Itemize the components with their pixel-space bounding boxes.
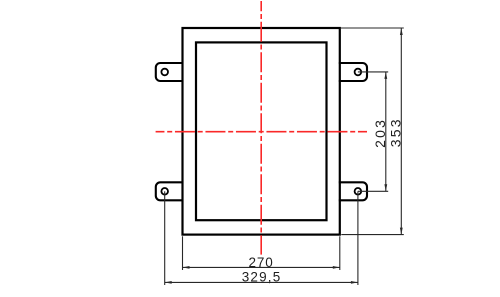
extension line 203 top <box>358 71 388 73</box>
arrow 270 left <box>183 266 190 269</box>
dimension line 329.5 <box>165 281 358 283</box>
svg-text:353: 353 <box>388 117 404 147</box>
dimension line 270 <box>183 266 340 268</box>
horizontal centerline <box>156 131 367 133</box>
arrow 329.5 left <box>165 281 172 284</box>
outer frame rectangle <box>183 28 340 235</box>
extension line 329.5 left <box>164 191 166 285</box>
hole upper-left <box>161 69 168 76</box>
extension line 270 left <box>182 236 184 270</box>
arrow 203 down <box>384 184 387 191</box>
hole upper-right <box>355 69 362 76</box>
extension line 270 right <box>339 236 341 270</box>
inner opening rectangle <box>196 42 327 220</box>
extension line 353 bottom <box>341 234 404 236</box>
mounting tab lower-right <box>339 182 367 200</box>
hole lower-right <box>355 188 362 195</box>
extension line 353 top <box>341 27 404 29</box>
mounting tab upper-right <box>339 63 367 81</box>
svg-text:270: 270 <box>248 255 273 270</box>
arrow 203 up <box>384 72 387 79</box>
extension line 329.5 right <box>357 191 359 285</box>
mounting tab upper-left <box>156 63 184 81</box>
extension line 203 bottom <box>358 190 388 192</box>
svg-text:329,5: 329,5 <box>242 270 282 285</box>
mounting tab lower-left <box>156 182 184 200</box>
dimension line 353 <box>400 28 402 235</box>
arrow 353 down <box>400 228 403 235</box>
arrow 353 up <box>400 28 403 35</box>
dimension line 203 <box>385 72 387 191</box>
svg-text:203: 203 <box>372 118 388 148</box>
hole lower-left <box>161 188 168 195</box>
arrow 270 right <box>333 266 340 269</box>
vertical centerline <box>260 1 262 255</box>
arrow 329.5 right <box>351 281 358 284</box>
